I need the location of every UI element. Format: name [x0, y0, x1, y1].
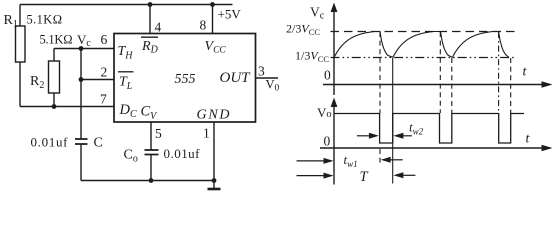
node pin1/ground junction: [212, 178, 217, 183]
dimension arrow tw1 left edge: [297, 160, 324, 162]
dimension arrow T left edge: [297, 175, 324, 177]
axis V0 vertical: [333, 105, 335, 185]
guide line discharge2 start (dashed): [439, 32, 441, 113]
wire R1 bottom to pin7 rail: [19, 62, 21, 107]
Vc capacitor waveform curve: [334, 32, 509, 58]
reference line 2/3 Vcc dashed: [331, 31, 515, 33]
wire C bottom: [80, 144, 82, 181]
svg-text:5: 5: [155, 126, 162, 141]
capacitor C: [75, 139, 88, 144]
IC U1 555 timer body: [114, 34, 256, 123]
guide line discharge3 start (dash-dot): [498, 32, 500, 113]
axis t horizontal (lower): [320, 147, 548, 149]
svg-text:0.01uf: 0.01uf: [31, 135, 69, 150]
dimension arrow tw2 left: [357, 135, 369, 137]
resistor R2: [49, 61, 60, 93]
svg-text:T: T: [360, 169, 369, 185]
guide line discharge1 start (dashed): [379, 32, 381, 113]
wire +5V supply rail: [20, 4, 233, 6]
wire R2 bottom: [53, 93, 55, 107]
axis Vc vertical: [333, 10, 335, 95]
wire pin 2: [81, 79, 114, 81]
reference line 1/3 Vcc dash-dot: [331, 57, 516, 59]
capacitor C0: [145, 150, 159, 155]
svg-text:5.1KΩ: 5.1KΩ: [27, 13, 63, 27]
guide line discharge1 start below axis: [379, 149, 381, 166]
svg-text:OUT: OUT: [220, 70, 252, 86]
wire R1 top: [19, 5, 21, 27]
svg-text:1: 1: [203, 126, 210, 141]
svg-text:5.1KΩ: 5.1KΩ: [40, 33, 73, 47]
svg-text:7: 7: [100, 92, 107, 107]
node Vc junction: [79, 46, 84, 51]
wire pin 3 output: [256, 77, 279, 79]
wire pin 5 to C0: [150, 122, 152, 150]
svg-text:6: 6: [101, 32, 108, 47]
svg-text:8: 8: [200, 18, 207, 33]
svg-text:+5V: +5V: [218, 7, 242, 22]
node pin4 junction: [148, 2, 153, 7]
svg-text:0.01uf: 0.01uf: [164, 146, 201, 161]
pin label TL with overline: [118, 71, 134, 73]
wire pin 4: [149, 5, 151, 34]
axis t horizontal (upper): [323, 84, 548, 86]
svg-text:GND: GND: [197, 108, 230, 123]
wire R2 top: [53, 49, 55, 62]
wire ground rail: [81, 180, 214, 182]
ground: [213, 181, 215, 189]
dimension arrow T right: [403, 174, 415, 176]
wire pin 1: [213, 122, 215, 181]
pin label RD with overline: [141, 36, 158, 38]
node C0/ground rail junction: [149, 178, 154, 183]
wire Vc node down to capacitor C: [80, 49, 82, 139]
svg-text:0: 0: [324, 68, 331, 83]
wire pin 8: [212, 5, 214, 34]
wire C0 bottom: [150, 155, 152, 181]
dimension arrow tw2 right: [403, 135, 412, 137]
wire pin 7: [20, 106, 114, 108]
dimension arrow tw1 right: [391, 159, 403, 161]
svg-text:C: C: [94, 136, 103, 151]
node pin2 junction: [79, 77, 84, 82]
node pin8 junction: [210, 2, 215, 7]
svg-text:2: 2: [101, 65, 108, 80]
resistor R1: [16, 26, 26, 62]
V0 square waveform: [334, 114, 524, 144]
svg-text:4: 4: [155, 20, 162, 35]
wire pin 6: [54, 48, 114, 50]
guide line discharge3 end (dash-dot): [510, 58, 512, 113]
node junction R2/pin7: [52, 104, 57, 109]
svg-text:555: 555: [175, 72, 196, 87]
guide line discharge2 end (dashed): [451, 58, 453, 113]
svg-text:3: 3: [258, 64, 265, 79]
svg-text:0: 0: [324, 134, 331, 149]
guide line discharge1 end (solid): [392, 58, 394, 184]
